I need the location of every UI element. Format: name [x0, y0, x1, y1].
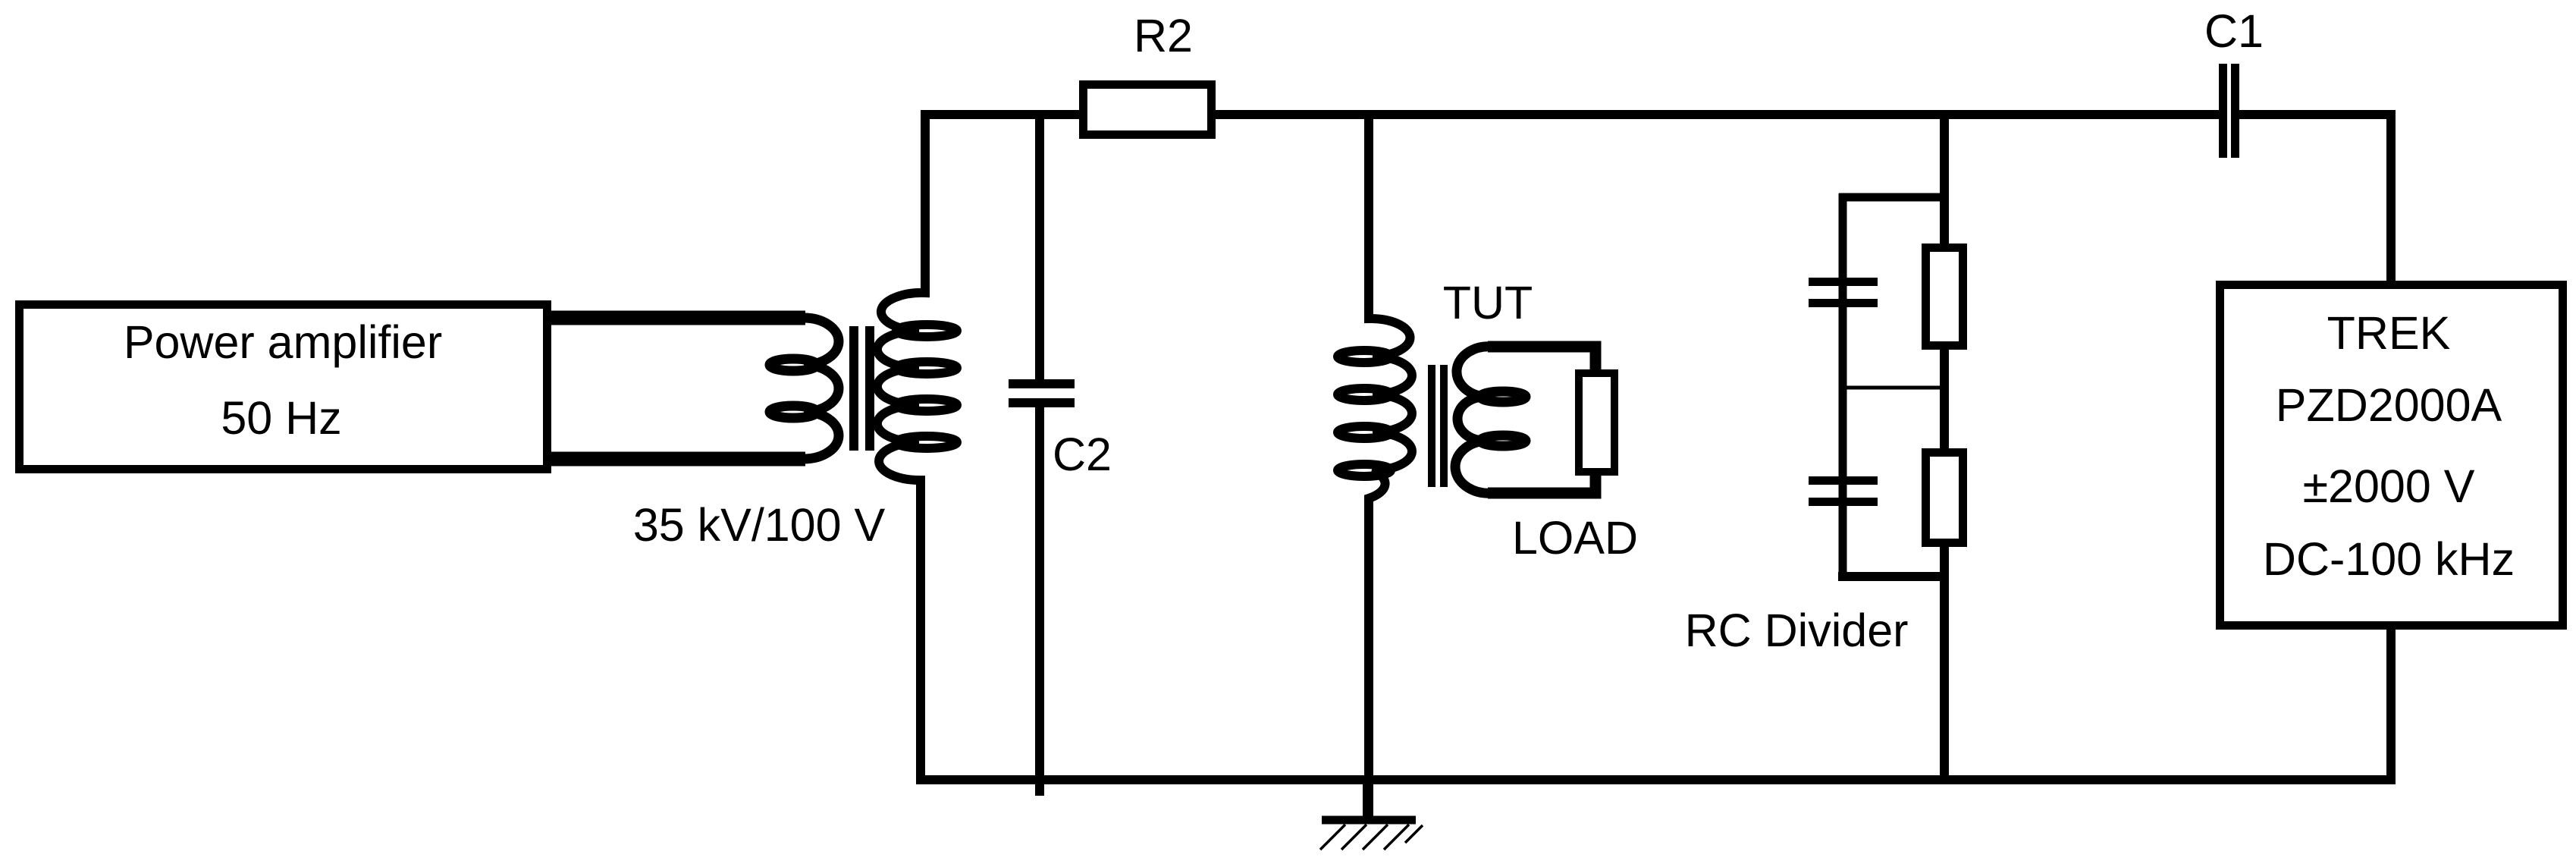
transformer T1 primary loop ellipse 1: [770, 359, 817, 371]
ground hatch 1: [1320, 825, 1345, 850]
transformer TUT primary loop ellipse 1: [1338, 350, 1391, 363]
wire: C2 riser: [1035, 110, 1044, 379]
svg-text:±2000 V: ±2000 V: [2303, 460, 2475, 512]
transformer T1 secondary loop ellipse 1: [896, 325, 957, 337]
svg-text:C2: C2: [1053, 429, 1112, 480]
capacitor RC divider C lower top plate: [1809, 476, 1878, 485]
transformer T1 secondary loop ellipse 2: [896, 362, 957, 374]
wire: RC divider middle connector: [1843, 386, 1944, 390]
wire: RC divider main vertical: [1940, 110, 1949, 784]
transformer T1 secondary winding with leads: [877, 110, 925, 780]
wire: LOAD loop top bar: [1488, 347, 1595, 372]
wire: top bus left segment: [921, 110, 1084, 119]
wire: RC divider top connector: [1839, 193, 1949, 202]
transformer TUT core bar 1: [1428, 365, 1435, 487]
ground bar: [1322, 816, 1416, 825]
wire: RC divider left branch vertical: [1839, 193, 1847, 580]
svg-text:C1: C1: [2204, 5, 2264, 57]
wire: right vertical to TREK box: [2386, 110, 2396, 289]
svg-text:RC Divider: RC Divider: [1685, 605, 1909, 656]
capacitor C2 bottom plate: [1009, 398, 1075, 407]
svg-text:TREK: TREK: [2327, 307, 2451, 359]
wire: RC divider bottom connector: [1838, 572, 1949, 581]
svg-text:DC-100 kHz: DC-100 kHz: [2263, 533, 2515, 585]
transformer TUT core bar 2: [1440, 365, 1448, 487]
transformer T1 primary winding arcs: [804, 318, 839, 459]
Power amplifier box: [20, 305, 548, 470]
transformer TUT secondary loop ellipse 2: [1480, 435, 1526, 446]
transformer TUT primary loop ellipse 3: [1338, 426, 1391, 438]
transformer TUT primary loop ellipse 4: [1338, 464, 1391, 476]
wire: TREK box bottom lead: [2386, 626, 2396, 784]
transformer TUT secondary loop ellipse 1: [1480, 391, 1526, 402]
wire: power amp to transformer primary bottom lead: [551, 452, 805, 467]
ground hatch 3: [1363, 825, 1388, 850]
transformer TUT primary winding with leads: [1369, 110, 1412, 824]
capacitor C1 right plate: [2231, 64, 2239, 158]
ground hatch 4: [1384, 825, 1409, 850]
capacitor RC divider C upper top plate: [1809, 278, 1878, 286]
transformer T1 secondary loop ellipse 3: [896, 399, 957, 411]
resistor RC divider R upper: [1926, 248, 1963, 346]
transformer T1 secondary loop ellipse 4: [896, 436, 957, 448]
ground stub: [1363, 780, 1372, 824]
capacitor C2 top plate: [1009, 379, 1075, 388]
capacitor C1 left plate: [2219, 64, 2227, 158]
ground hatch 2: [1341, 825, 1366, 850]
svg-text:LOAD: LOAD: [1512, 512, 1638, 564]
wire: power amp to transformer primary top lead: [551, 311, 805, 325]
resistor RC divider R lower: [1926, 453, 1963, 543]
wire: top bus middle segment: [1211, 110, 2219, 119]
wire: LOAD loop bottom bar: [1488, 470, 1595, 493]
transformer T1 primary loop ellipse 2: [770, 406, 817, 418]
wire: bottom bus: [916, 775, 2391, 784]
svg-text:35 kV/100 V: 35 kV/100 V: [633, 499, 886, 551]
TREK box: [2220, 285, 2563, 626]
resistor R2: [1084, 85, 1212, 135]
wire: top bus right segment: [2239, 110, 2391, 119]
resistor LOAD: [1579, 373, 1614, 472]
svg-text:PZD2000A: PZD2000A: [2276, 379, 2502, 431]
svg-text:R2: R2: [1134, 10, 1193, 61]
transformer TUT secondary winding: [1455, 347, 1492, 493]
ground hatch 5: [1405, 825, 1423, 843]
svg-text:50 Hz: 50 Hz: [221, 392, 341, 444]
svg-text:Power amplifier: Power amplifier: [124, 316, 442, 368]
capacitor RC divider C lower bottom plate: [1809, 498, 1878, 506]
transformer T1 core bar 1: [849, 326, 858, 451]
svg-text:TUT: TUT: [1443, 277, 1533, 328]
capacitor RC divider C upper bottom plate: [1809, 299, 1878, 307]
transformer TUT primary loop ellipse 2: [1338, 388, 1391, 401]
wire: C2 to bottom bus: [1035, 407, 1044, 796]
transformer T1 core bar 2: [865, 326, 874, 451]
